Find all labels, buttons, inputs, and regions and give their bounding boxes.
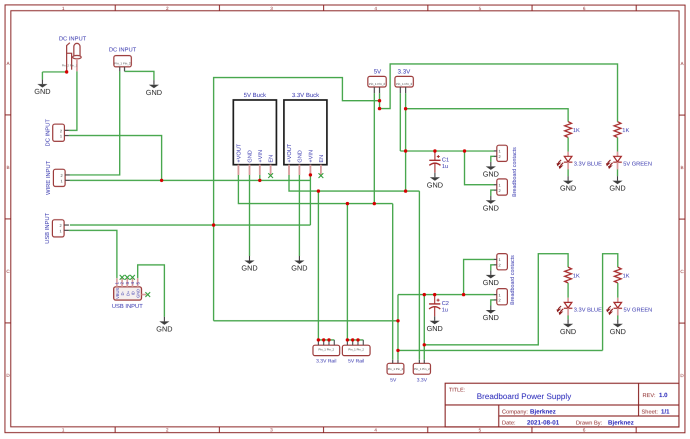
- wire bottom 5V conn pin2 stub: [397, 350, 399, 359]
- wire contact J9 pin2 to gnd: [491, 265, 495, 271]
- wire 5V flag pin1 down to 5V trunk: [373, 93, 375, 203]
- svg-text:1K: 1K: [573, 273, 580, 279]
- svg-text:2: 2: [166, 428, 169, 433]
- contact J8 body: [497, 179, 508, 195]
- svg-text:Date:: Date:: [502, 421, 516, 427]
- no-connect (USB data pin): [130, 275, 135, 280]
- wire resistor to LED (bottom 5V GREEN): [617, 283, 619, 298]
- svg-text:2: 2: [499, 188, 501, 193]
- junction: [65, 70, 68, 73]
- wire 3.3V to blue LED resistor: [406, 109, 569, 122]
- junction: [404, 189, 407, 192]
- wire 3.3V flag pin2 riser: [405, 93, 407, 191]
- svg-text:2: 2: [498, 298, 500, 303]
- svg-text:Sheet:: Sheet:: [641, 409, 658, 416]
- svg-text:3.3V: 3.3V: [398, 68, 412, 75]
- svg-text:GND: GND: [136, 289, 141, 298]
- connector 3.3V Rail body: [313, 345, 340, 355]
- svg-text:1: 1: [498, 292, 500, 297]
- resistor 1K (3.3V BLUE): [565, 122, 572, 138]
- wire USB conn pin1 / VBUS trunk: [70, 224, 310, 226]
- wire USB GND pin to gnd: [138, 265, 165, 317]
- svg-text:5V: 5V: [390, 377, 397, 383]
- svg-text:1: 1: [60, 133, 62, 138]
- wire resistor to LED (bottom 3.3V BLUE): [567, 283, 569, 298]
- pin EN (5V buck): [270, 165, 272, 175]
- svg-text:2: 2: [499, 263, 501, 268]
- junction: [396, 349, 399, 352]
- junction: [404, 107, 407, 110]
- svg-text:Pin_2 Pin_1: Pin_2 Pin_1: [62, 63, 78, 67]
- connector J5 USB body: [114, 287, 142, 300]
- svg-text:3: 3: [270, 6, 273, 11]
- wire LED cathode (bottom 5V GREEN): [617, 315, 619, 319]
- svg-text:WIRE INPUT: WIRE INPUT: [46, 160, 52, 195]
- junction: [346, 202, 349, 205]
- svg-text:+VIN: +VIN: [309, 150, 315, 163]
- wire riser to bottom green LED resistor: [603, 254, 618, 351]
- svg-text:GND: GND: [427, 180, 443, 189]
- ground (C1): [427, 173, 443, 190]
- svg-text:3.3V BLUE: 3.3V BLUE: [574, 161, 602, 167]
- junction: [373, 202, 376, 205]
- LED bottom 5V GREEN: [607, 298, 622, 316]
- svg-text:GND: GND: [146, 88, 162, 97]
- wire gnd drop: [41, 72, 43, 80]
- svg-text:1K: 1K: [623, 273, 630, 279]
- wire resistor to LED (3.3V BLUE): [567, 137, 569, 151]
- svg-text:Pin_1 Pin_2: Pin_1 Pin_2: [348, 347, 364, 351]
- svg-text:5V GREEN: 5V GREEN: [623, 161, 652, 167]
- LED 3.3V BLUE: [557, 152, 572, 170]
- ground (contact J8): [483, 196, 499, 213]
- wire jack pin2 to J3 pin2: [69, 71, 77, 130]
- svg-text:5V: 5V: [374, 68, 382, 75]
- svg-text:Pin_1 Pin_2: Pin_1 Pin_2: [388, 367, 404, 371]
- wire resistor to LED (5V GREEN): [617, 137, 619, 151]
- capacitor C2: [429, 295, 440, 317]
- junction: [378, 99, 381, 102]
- connector 5V bottom body: [387, 363, 404, 374]
- ground (J2): [146, 80, 162, 97]
- svg-text:2: 2: [166, 6, 169, 11]
- pin GND (3.3V buck): [298, 165, 300, 175]
- ground (bottom LED 3.3V BLUE): [560, 319, 576, 336]
- ground (contact J7): [483, 162, 499, 179]
- pin 2 D- (USB): [121, 278, 123, 287]
- wire LED cathode (5V GREEN): [617, 169, 619, 176]
- module U1 5V Buck body: [233, 100, 276, 165]
- connector J2 body: [114, 56, 132, 67]
- resistor 1K (bottom 3.3V BLUE): [565, 267, 572, 283]
- wire 5V buck GND pin down: [248, 175, 250, 256]
- contact J9 body: [497, 254, 508, 270]
- svg-text:5: 5: [479, 6, 482, 11]
- svg-text:USB INPUT: USB INPUT: [44, 212, 51, 243]
- wire 3.3V buck +VOUT trunk: [289, 175, 419, 191]
- connector J1 barrel jack DC INPUT: [67, 43, 82, 72]
- svg-text:GND: GND: [483, 278, 499, 287]
- svg-text:1K: 1K: [573, 128, 580, 134]
- svg-text:GND: GND: [156, 324, 172, 333]
- wire 3.3V buck GND pin down: [298, 175, 300, 256]
- pin shield (USB): [141, 294, 146, 296]
- svg-text:3.3V: 3.3V: [417, 377, 428, 383]
- ground (USB): [156, 317, 172, 334]
- wire to contact J9 pin1: [464, 259, 495, 294]
- svg-text:EN: EN: [319, 155, 325, 163]
- svg-text:Bjerknez: Bjerknez: [530, 409, 556, 416]
- pin +VIN (3.3V buck): [309, 165, 311, 175]
- connector 3.3V body: [395, 76, 413, 87]
- svg-text:GND: GND: [241, 264, 257, 273]
- wire 3.3V flag pin1 down: [399, 93, 401, 151]
- svg-text:GND: GND: [248, 150, 254, 162]
- svg-text:1K: 1K: [622, 128, 629, 134]
- pin 4 ID (USB): [131, 278, 133, 287]
- svg-text:DC INPUT: DC INPUT: [59, 35, 87, 42]
- connector 5V Rail body: [342, 345, 370, 355]
- wire LED cathode (bottom 3.3V BLUE): [567, 315, 569, 319]
- svg-text:TITLE:: TITLE:: [449, 388, 465, 394]
- svg-text:REV:: REV:: [642, 393, 655, 399]
- junction: [423, 293, 426, 296]
- svg-text:B: B: [680, 165, 683, 170]
- wire USB conn pin2 to VBUS pin: [69, 230, 117, 278]
- junction: [423, 343, 426, 346]
- ground (LED 3.3V BLUE): [560, 176, 576, 193]
- module U2 3.3V Buck body: [284, 100, 327, 165]
- ground (bottom LED 5V GREEN): [610, 319, 626, 336]
- svg-text:5V Buck: 5V Buck: [244, 92, 267, 99]
- ground (LED 5V GREEN): [609, 176, 625, 193]
- resistor 1K (5V GREEN): [614, 122, 621, 138]
- wire 3.3V buck +VIN down: [309, 175, 311, 225]
- svg-text:3: 3: [270, 428, 273, 433]
- svg-text:Pin_1 Pin_2: Pin_1 Pin_2: [114, 61, 131, 65]
- svg-text:GND: GND: [560, 327, 576, 336]
- svg-text:GND: GND: [483, 313, 499, 322]
- junction: [396, 319, 399, 322]
- svg-text:GND: GND: [291, 264, 307, 273]
- junction: [404, 149, 407, 152]
- no-connect EN (3.3V buck): [319, 173, 324, 178]
- connector J6 body: [52, 220, 64, 237]
- svg-text:2: 2: [499, 154, 501, 159]
- svg-text:6: 6: [583, 428, 586, 433]
- svg-text:Breadboard contacts: Breadboard contacts: [510, 255, 516, 305]
- svg-text:+VOUT: +VOUT: [287, 143, 293, 162]
- svg-text:2021-08-01: 2021-08-01: [527, 420, 560, 427]
- svg-text:1: 1: [62, 428, 65, 433]
- wire 5V flag pin2 stub: [379, 93, 381, 108]
- wire aux riser to 5V flag pin2: [214, 78, 380, 321]
- wire to bottom green LED: [398, 349, 603, 351]
- junction: [317, 189, 320, 192]
- wire 3.3V rail top bus: [318, 339, 334, 341]
- svg-text:2: 2: [61, 173, 63, 178]
- pin +VOUT (3.3V buck): [288, 165, 290, 175]
- no-connect (USB shield): [145, 292, 150, 297]
- svg-text:6: 6: [583, 6, 586, 11]
- ground (5V buck): [241, 256, 257, 273]
- wire 5V rail feed: [346, 204, 348, 340]
- svg-text:1u: 1u: [442, 164, 448, 170]
- svg-text:1: 1: [499, 149, 501, 154]
- svg-text:1/1: 1/1: [661, 409, 670, 416]
- connector J3 body: [53, 124, 65, 141]
- pin 1 VBUS (USB): [116, 278, 118, 287]
- wire 5V rail top bus: [347, 339, 363, 341]
- svg-text:Company:: Company:: [502, 410, 528, 416]
- junction: [322, 338, 325, 341]
- no-connect (USB data pin): [120, 275, 125, 280]
- svg-text:5V GREEN: 5V GREEN: [623, 308, 652, 314]
- no-connect (USB data pin): [125, 275, 130, 280]
- junction: [160, 179, 163, 182]
- wire 5V buck +VOUT trunk: [238, 175, 392, 204]
- junction: [378, 107, 381, 110]
- wire aux drop: [397, 295, 399, 351]
- resistor 1K (bottom 5V GREEN): [614, 267, 621, 283]
- svg-text:DC INPUT: DC INPUT: [109, 46, 137, 53]
- svg-text:1: 1: [60, 228, 62, 233]
- ground (barrel jack): [34, 80, 50, 97]
- pin +VOUT (5V buck): [237, 165, 239, 175]
- wire J3 pin1 to VIN trunk: [69, 136, 162, 181]
- svg-text:GND: GND: [483, 170, 499, 179]
- svg-text:GND: GND: [483, 203, 499, 212]
- ground (C2): [427, 316, 443, 333]
- svg-text:Pin_1 Pin_2: Pin_1 Pin_2: [396, 82, 413, 86]
- svg-text:1: 1: [499, 257, 501, 262]
- svg-text:Breadboard Power Supply: Breadboard Power Supply: [477, 392, 572, 401]
- svg-text:+VOUT: +VOUT: [237, 143, 243, 162]
- svg-text:4: 4: [374, 428, 377, 433]
- svg-text:GND: GND: [609, 184, 625, 193]
- connector 3.3V bottom body: [413, 363, 430, 374]
- junction: [346, 338, 349, 341]
- wire 3.3V rail feed: [317, 191, 319, 340]
- svg-text:5: 5: [479, 428, 482, 433]
- wire LED cathode (3.3V BLUE): [567, 169, 569, 176]
- wire contact J8 pin2 to gnd: [491, 190, 495, 196]
- capacitor C1: [429, 151, 440, 173]
- svg-text:GND: GND: [298, 150, 304, 162]
- svg-text:5V Rail: 5V Rail: [348, 358, 364, 364]
- svg-text:3.3V Rail: 3.3V Rail: [316, 358, 336, 364]
- wire aux bottom run: [214, 320, 398, 322]
- svg-text:C2: C2: [442, 301, 449, 307]
- junction: [463, 149, 466, 152]
- wire 5V trunk to bottom 5V conn pin1: [392, 204, 394, 360]
- svg-text:GND: GND: [610, 327, 626, 336]
- svg-text:4: 4: [374, 6, 377, 11]
- svg-text:USB INPUT: USB INPUT: [112, 303, 143, 310]
- svg-text:Pin_1 Pin_2: Pin_1 Pin_2: [414, 367, 430, 371]
- wire jack sleeve to gnd: [42, 71, 66, 73]
- LED bottom 3.3V BLUE: [557, 298, 572, 316]
- junction: [258, 179, 261, 182]
- svg-text:C1: C1: [442, 157, 449, 163]
- junction: [356, 338, 359, 341]
- svg-text:2: 2: [60, 223, 62, 228]
- svg-text:1: 1: [61, 178, 63, 183]
- ground (contact J10): [483, 306, 499, 323]
- wire to bottom 3.3V conn pin1: [418, 191, 420, 360]
- svg-text:Drawn By:: Drawn By:: [576, 421, 603, 427]
- wire 5V to green LED resistor: [380, 64, 618, 122]
- svg-text:GND: GND: [560, 184, 576, 193]
- junction: [433, 293, 436, 296]
- pin GND (5V buck): [249, 165, 251, 175]
- wire C2 group bus: [398, 294, 494, 296]
- svg-text:EN: EN: [269, 155, 275, 163]
- ground (3.3V buck): [291, 256, 307, 273]
- svg-text:1.0: 1.0: [659, 392, 668, 399]
- svg-text:Breadboard contacts: Breadboard contacts: [512, 147, 518, 197]
- contact J7 body: [497, 145, 508, 161]
- svg-text:Bjerknez: Bjerknez: [608, 420, 634, 427]
- LED 5V GREEN: [607, 152, 622, 170]
- junction: [327, 338, 330, 341]
- junction: [433, 149, 436, 152]
- wire riser to bottom blue LED resistor: [424, 254, 568, 345]
- junction: [317, 338, 320, 341]
- junction: [212, 223, 215, 226]
- pin +VIN (5V buck): [259, 165, 261, 175]
- svg-text:GND: GND: [427, 324, 443, 333]
- svg-text:+VIN: +VIN: [258, 150, 264, 163]
- svg-text:B: B: [6, 165, 9, 170]
- svg-text:1: 1: [62, 6, 65, 11]
- wire contact J7 pin2 to gnd: [491, 156, 495, 162]
- svg-text:DC INPUT: DC INPUT: [44, 119, 51, 147]
- no-connect EN (5V buck): [268, 173, 273, 178]
- wire C1 group bus: [400, 150, 494, 152]
- pin 5 GND (USB): [137, 278, 139, 287]
- connector J4 body: [53, 169, 65, 186]
- wire VIN trunk: [70, 179, 310, 181]
- wire J2 pin2 to gnd: [125, 71, 154, 80]
- wire J2 pin1 down to wire-input pin2: [70, 71, 120, 175]
- svg-text:1: 1: [499, 183, 501, 188]
- pin 3 D+ (USB): [126, 278, 128, 287]
- svg-text:3.3V BLUE: 3.3V BLUE: [574, 308, 602, 314]
- svg-text:Pin_1 Pin_2: Pin_1 Pin_2: [369, 82, 386, 86]
- connector 5V body: [368, 76, 386, 87]
- ground (contact J9): [483, 270, 499, 287]
- contact J10 body: [497, 289, 508, 305]
- junction: [462, 293, 465, 296]
- svg-text:Pin_1 Pin_2: Pin_1 Pin_2: [318, 347, 334, 351]
- wire to contact J8 pin1: [465, 151, 495, 185]
- svg-text:3.3V Buck: 3.3V Buck: [292, 92, 320, 99]
- wire bottom 3.3V conn pin2 riser: [423, 295, 425, 360]
- wire contact J10 pin2 to gnd: [491, 300, 495, 306]
- wire 5V buck +VIN stub: [259, 175, 261, 180]
- pin EN (3.3V buck): [320, 165, 322, 175]
- junction: [309, 173, 312, 176]
- junction: [351, 338, 354, 341]
- svg-text:GND: GND: [34, 87, 50, 96]
- svg-text:1u: 1u: [442, 308, 448, 314]
- title block: [445, 383, 679, 427]
